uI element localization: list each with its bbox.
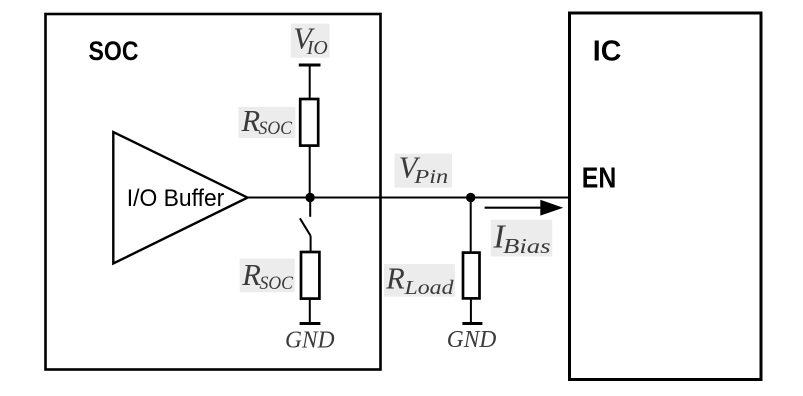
svg-text:Pin: Pin [413, 167, 448, 188]
svg-text:GND: GND [285, 327, 335, 353]
svg-text:R: R [241, 258, 261, 292]
svg-text:IC: IC [593, 35, 622, 67]
svg-text:R: R [385, 261, 405, 295]
svg-text:IO: IO [306, 37, 328, 59]
svg-text:EN: EN [582, 161, 617, 193]
svg-text:R: R [241, 104, 261, 138]
svg-text:SOC: SOC [260, 273, 294, 294]
svg-text:SOC: SOC [259, 118, 293, 139]
svg-text:Load: Load [403, 278, 454, 299]
svg-text:Bias: Bias [503, 234, 551, 258]
svg-text:GND: GND [447, 327, 497, 353]
svg-text:SOC: SOC [89, 36, 139, 66]
svg-text:I/O Buffer: I/O Buffer [127, 185, 225, 212]
